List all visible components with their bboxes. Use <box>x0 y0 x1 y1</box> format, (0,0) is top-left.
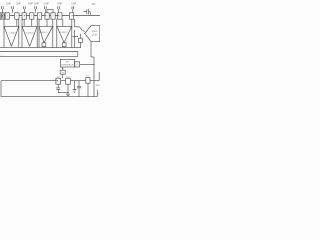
svg-text:u: u <box>1 55 2 57</box>
svg-text:CMF: CMF <box>34 3 40 5</box>
svg-text:V+: V+ <box>97 94 100 96</box>
svg-text:1-8Ω0 C: 1-8Ω0 C <box>9 32 17 34</box>
svg-text:xx: xx <box>76 64 78 66</box>
svg-text:xx: xx <box>62 72 64 74</box>
svg-text:TpF: TpF <box>91 4 96 6</box>
svg-text:CMF: CMF <box>6 3 12 5</box>
svg-text:INTERFACE: INTERFACE <box>61 63 74 66</box>
svg-text:1-8Ω0 C: 1-8Ω0 C <box>60 32 68 34</box>
svg-text:VREG: VREG <box>92 31 98 33</box>
svg-text:SPI: SPI <box>66 62 70 64</box>
svg-text:CMF: CMF <box>71 3 77 5</box>
svg-text:14-BIT: 14-BIT <box>92 34 99 36</box>
svg-text:CMF: CMF <box>57 3 63 5</box>
svg-text:CMF: CMF <box>16 3 22 5</box>
svg-text:Vcc: Vcc <box>86 76 89 78</box>
svg-text:Cap: Cap <box>66 76 69 78</box>
svg-text:SDO: SDO <box>96 85 100 87</box>
svg-text:1-8Ω0 C: 1-8Ω0 C <box>40 32 48 34</box>
svg-text:Cap: Cap <box>57 76 60 78</box>
svg-text:CMF: CMF <box>28 3 34 5</box>
svg-text:CMF: CMF <box>44 3 50 5</box>
svg-text:1-8Ω0 C: 1-8Ω0 C <box>26 32 34 34</box>
